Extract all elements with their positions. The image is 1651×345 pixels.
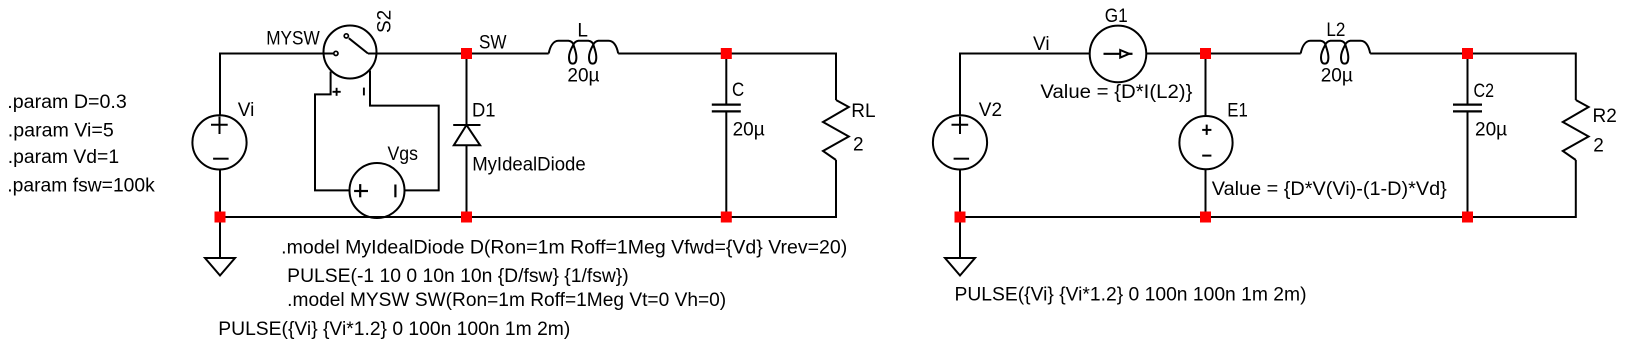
wire switch to node SW <box>368 53 467 55</box>
wire capacitor C top <box>725 54 727 105</box>
svg-text:20µ: 20µ <box>567 65 599 86</box>
wire capacitor C2 top <box>1467 54 1469 105</box>
wire capacitor C bottom <box>725 111 727 217</box>
svg-text:D1: D1 <box>472 100 496 121</box>
svg-text:C: C <box>732 80 744 101</box>
svg-text:20µ: 20µ <box>733 119 765 140</box>
wire capacitor C2 bottom <box>1467 111 1469 217</box>
wire switch control left to Vgs <box>315 72 350 191</box>
svg-text:E1: E1 <box>1227 101 1248 122</box>
diode D1 <box>453 125 480 145</box>
junction node C top <box>721 48 732 59</box>
svg-text:PULSE({Vi} {Vi*1.2} 0 100n 100: PULSE({Vi} {Vi*1.2} 0 100n 100n 1m 2m) <box>955 284 1307 305</box>
svg-text:.param Vd=1: .param Vd=1 <box>8 147 119 168</box>
svg-text:Value = {D*V(Vi)-(1-D)*Vd}: Value = {D*V(Vi)-(1-D)*Vd} <box>1212 179 1447 200</box>
wire node C to resistor RL <box>726 54 836 101</box>
wire RL bottom and left ground rail <box>220 160 836 217</box>
wire node SW to diode D1 <box>466 54 468 126</box>
inductor L <box>549 41 619 64</box>
svg-text:Vgs: Vgs <box>388 144 419 165</box>
svg-text:PULSE({Vi} {Vi*1.2} 0 100n 100: PULSE({Vi} {Vi*1.2} 0 100n 100n 1m 2m) <box>218 319 570 340</box>
switch control plus mark <box>333 88 341 96</box>
svg-text:.param fsw=100k: .param fsw=100k <box>7 175 155 196</box>
wire node SW to inductor L <box>467 53 549 55</box>
svg-text:G1: G1 <box>1105 6 1128 27</box>
junction diode D1 at ground rail <box>461 212 472 223</box>
wire node C2 to resistor R2 <box>1468 54 1576 101</box>
voltage source Vi body <box>192 115 246 169</box>
svg-text:2: 2 <box>1593 135 1604 156</box>
switch control minus mark <box>363 88 365 96</box>
svg-text:Vi: Vi <box>238 100 255 121</box>
wire G1 to inductor L2 <box>1146 53 1300 55</box>
switch S2 (MYSW) body <box>324 26 377 79</box>
svg-text:Vi: Vi <box>1033 34 1050 55</box>
svg-text:MYSW: MYSW <box>266 29 320 50</box>
svg-text:C2: C2 <box>1474 81 1495 102</box>
svg-text:20µ: 20µ <box>1321 66 1353 87</box>
svg-text:.model MyIdealDiode D(Ron=1m R: .model MyIdealDiode D(Ron=1m Roff=1Meg V… <box>281 238 847 259</box>
wire inductor L to node C <box>618 53 726 55</box>
inductor L2 <box>1301 41 1371 64</box>
junction E1 at ground rail <box>1200 212 1211 223</box>
capacitor C2 <box>1453 105 1482 112</box>
junction capacitor C2 at ground rail <box>1462 212 1473 223</box>
svg-text:S2: S2 <box>375 10 396 33</box>
svg-text:L: L <box>577 20 588 41</box>
wire R2 bottom and right ground rail <box>960 160 1576 217</box>
wire switch control right to Vgs <box>370 71 439 191</box>
voltage source V2 body <box>933 115 987 169</box>
voltage source E1 body <box>1179 116 1232 169</box>
voltage source Vgs body <box>350 163 405 218</box>
wire V2 top to G1 <box>960 54 1090 116</box>
junction Vi at ground rail <box>215 212 226 223</box>
svg-text:L2: L2 <box>1326 20 1345 41</box>
svg-text:20µ: 20µ <box>1475 119 1507 140</box>
svg-text:2: 2 <box>853 134 864 155</box>
svg-text:SW: SW <box>479 32 507 53</box>
junction V2 at ground rail <box>955 212 966 223</box>
svg-text:R2: R2 <box>1593 106 1617 127</box>
ground left <box>205 258 235 276</box>
junction node E1 top <box>1200 48 1211 59</box>
ground right <box>945 258 975 276</box>
svg-text:.model MYSW SW(Ron=1m Roff=1Me: .model MYSW SW(Ron=1m Roff=1Meg Vt=0 Vh=… <box>287 290 726 311</box>
svg-text:Value = {D*I(L2)}: Value = {D*I(L2)} <box>1040 82 1192 103</box>
wire V2 bottom <box>959 170 961 218</box>
wire Vi top to switch S2 <box>220 54 336 116</box>
svg-text:MyIdealDiode: MyIdealDiode <box>472 154 586 175</box>
wire E1 bottom <box>1205 169 1207 217</box>
junction node SW <box>461 48 472 59</box>
svg-text:V2: V2 <box>979 100 1002 121</box>
junction capacitor C at ground rail <box>721 212 732 223</box>
wire Vi bottom <box>219 170 221 218</box>
resistor R2 <box>1563 100 1589 160</box>
wire diode D1 bottom <box>466 145 468 217</box>
svg-text:RL: RL <box>851 101 875 122</box>
wire E1 top <box>1205 54 1207 117</box>
wire inductor L2 to node C2 <box>1370 53 1467 55</box>
current source G1 body <box>1090 26 1147 83</box>
svg-text:PULSE(-1 10 0 10n 10n {D/fsw}: PULSE(-1 10 0 10n 10n {D/fsw} {1/fsw}) <box>287 266 629 287</box>
resistor RL <box>823 100 849 160</box>
capacitor C <box>712 105 741 112</box>
junction node C2 top <box>1462 48 1473 59</box>
wire ground stem right <box>959 217 961 258</box>
wire ground stem left <box>219 217 221 258</box>
svg-text:.param D=0.3: .param D=0.3 <box>7 92 127 113</box>
svg-text:.param Vi=5: .param Vi=5 <box>8 120 114 141</box>
